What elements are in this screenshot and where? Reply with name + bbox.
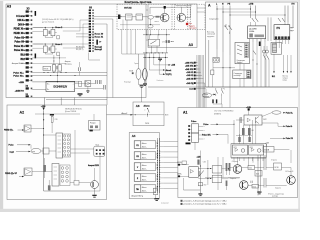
- svg-text:С2В: С2В: [55, 119, 58, 121]
- svg-text:Выход1: Выход1: [95, 46, 102, 48]
- svg-text:установить ,,Л,,О экспл для пе: установить ,,Л,,О экспл для перевода на …: [184, 204, 227, 206]
- svg-text:Б2 Колес В: Б2 Колес В: [286, 171, 294, 173]
- svg-text:Home X0: Home X0: [95, 34, 104, 36]
- svg-text:провода: провода: [203, 96, 209, 98]
- svg-text:Alarm1: Alarm1: [166, 69, 172, 72]
- svg-text:ОК2: ОК2: [204, 185, 207, 187]
- svg-text:под рельс: под рельс: [207, 36, 215, 38]
- svg-text:Закрыто: Закрыто: [275, 188, 281, 190]
- svg-text:Вх+: Вх+: [47, 84, 50, 86]
- svg-text:Р1: Р1: [223, 88, 225, 90]
- svg-text:A3: A3: [7, 5, 11, 9]
- svg-text:PEND (Y)+: PEND (Y)+: [4, 130, 14, 132]
- svg-text:+24В ХЛ1: +24В ХЛ1: [185, 65, 193, 68]
- svg-text:Pulse В+: Pulse В+: [286, 113, 293, 115]
- svg-text:ОСУ ОСЬ ТУРМ ВКЛЮЧ: ОСУ ОСЬ ТУРМ ВКЛЮЧ: [214, 111, 233, 113]
- svg-text:Термо: Термо: [134, 63, 139, 65]
- svg-text:Home X1: Home X1: [95, 37, 104, 39]
- svg-text:PEND (X)+ЧР: PEND (X)+ЧР: [5, 173, 18, 175]
- svg-text:Т: Т: [145, 110, 146, 112]
- svg-text:Вал соед-: Вал соед-: [207, 32, 215, 34]
- svg-text:Pulse X0+: Pulse X0+: [13, 75, 24, 77]
- svg-text:Открыто: Открыто: [232, 161, 238, 163]
- svg-text:СЗБ: СЗБ: [203, 162, 206, 164]
- svg-text:прекращ: прекращ: [65, 63, 72, 65]
- svg-text:А3: А3: [189, 43, 193, 47]
- svg-text:под: под: [32, 151, 35, 153]
- svg-text:ПЧ: ПЧ: [277, 27, 281, 30]
- svg-text:BL1: BL1: [272, 76, 275, 78]
- svg-text:A4: A4: [132, 134, 136, 138]
- svg-text:охлажден: охлажден: [189, 28, 197, 30]
- svg-text:РЕЛЕ: РЕЛЕ: [145, 123, 149, 125]
- svg-text:ОС2: ОС2: [263, 119, 267, 121]
- svg-text:A2: A2: [20, 111, 25, 115]
- svg-text:Pulse В-: Pulse В-: [286, 126, 293, 128]
- svg-text:СГЗ: СГЗ: [162, 42, 165, 44]
- svg-text:Закрыто: Закрыто: [230, 178, 236, 180]
- svg-text:К2.4: К2.4: [256, 174, 259, 176]
- svg-text:Резерв: Резерв: [90, 123, 96, 125]
- svg-text:DIR В-: DIR В-: [177, 174, 182, 176]
- svg-text:ДС24НВ: ДС24НВ: [249, 28, 257, 30]
- svg-text:Выход2: Выход2: [95, 49, 102, 51]
- svg-text:установить ,,Л,,М экспл для пе: установить ,,Л,,М экспл для перевода на …: [184, 200, 227, 202]
- svg-text:К2.2: К2.2: [253, 186, 256, 188]
- svg-text:Аварии К1К2 д: Аварии К1К2 д: [132, 195, 144, 198]
- svg-text:A6: A6: [136, 104, 140, 108]
- svg-text:+24В ХЛ2: +24В ХЛ2: [185, 68, 193, 71]
- svg-text:+24В Х2: +24В Х2: [186, 74, 193, 77]
- svg-text:галад сх: галад сх: [283, 77, 289, 79]
- svg-text:датчик Умвол1: датчик Умвол1: [42, 22, 54, 24]
- svg-text:+12В: +12В: [19, 82, 25, 84]
- svg-text:Соединузел: Соединузел: [234, 73, 242, 75]
- svg-text:DC24HV12V: DC24HV12V: [53, 86, 67, 89]
- svg-text:600Вт: 600Вт: [249, 31, 254, 33]
- svg-text:Х2 (РУ): Х2 (РУ): [166, 74, 172, 76]
- svg-text:Pulse: Pulse: [203, 124, 208, 126]
- svg-text:ОС10: ОС10: [274, 167, 278, 169]
- svg-text:Открыто: Открыто: [271, 160, 277, 162]
- svg-text:Й1 (Й1.1): Й1 (Й1.1): [76, 48, 84, 51]
- svg-text:(Х1-Х0) Funke 4В DC 13Q4-4ВВ (: (Х1-Х0) Funke 4В DC 13Q4-4ВВ (ВСт): [42, 19, 74, 21]
- svg-text:Обрыв: Обрыв: [203, 94, 208, 96]
- svg-text:+24В НТЦ: +24В НТЦ: [185, 61, 194, 64]
- svg-text:+24В Х1: +24В Х1: [186, 71, 193, 74]
- svg-text:ОС10М: ОС10М: [264, 150, 270, 152]
- svg-text:(ПВВФЛ): (ПВВФЛ): [214, 112, 221, 115]
- svg-text:вывод черт: вывод черт: [161, 202, 169, 204]
- svg-text:развода: развода: [272, 196, 278, 198]
- svg-text:+12В: +12В: [265, 142, 269, 144]
- svg-text:МОТ-ВШ: МОТ-ВШ: [124, 8, 132, 10]
- svg-text:Аварии 01002: Аварии 01002: [12, 62, 24, 65]
- svg-text:DIR В+: DIR В+: [177, 162, 182, 164]
- svg-text:Соединузел: Соединузел: [209, 19, 218, 21]
- svg-text:Alarm: Alarm: [144, 105, 150, 108]
- svg-text:БЛ-8: БЛ-8: [129, 71, 133, 73]
- svg-text:Контроль протока: Контроль протока: [125, 0, 152, 4]
- svg-text:+24В ХВ: +24В ХВ: [186, 77, 194, 80]
- svg-text:Pulse: Pulse: [191, 121, 197, 123]
- svg-text:Соединузел: Соединузел: [237, 60, 245, 62]
- svg-text:+27В: +27В: [249, 4, 254, 6]
- svg-text:Pulse X1+: Pulse X1+: [13, 72, 24, 74]
- svg-text:Вал пер: Вал пер: [283, 75, 288, 77]
- svg-text:ПУСК: ПУСК: [44, 68, 49, 70]
- svg-text:Своболна: Своболна: [157, 80, 164, 82]
- svg-text:вывод: вывод: [283, 80, 287, 82]
- svg-text:Дбльш ТВ810В: Дбльш ТВ810В: [65, 111, 76, 113]
- svg-text:ИСП: ИСП: [165, 115, 168, 117]
- svg-text:Pulse: Pulse: [9, 145, 14, 147]
- svg-text:reset: reset: [189, 88, 194, 91]
- svg-text:+: +: [73, 84, 74, 86]
- svg-text:Pulse ВЛ-: Pulse ВЛ-: [202, 134, 211, 136]
- svg-text:ПН: ПН: [136, 189, 139, 191]
- svg-text:Термодатчик(ротор): Термодатчик(ротор): [175, 5, 192, 7]
- svg-text:Перекидн: Перекидн: [124, 82, 131, 84]
- svg-text:Аварии К1КЗ: Аварии К1КЗ: [88, 164, 99, 167]
- svg-text:A1: A1: [183, 110, 187, 114]
- svg-text:А: А: [208, 3, 211, 7]
- svg-text:+24В НО: +24В НО: [15, 90, 24, 93]
- svg-text:оттна: оттна: [155, 21, 159, 23]
- svg-text:К Колес - модулятора: К Колес - модулятора: [268, 193, 284, 195]
- svg-text:КЗ.1: КЗ.1: [249, 168, 252, 170]
- svg-text:Pulse ХЗ: Pulse ХЗ: [286, 138, 293, 140]
- svg-text:РК: РК: [154, 192, 156, 194]
- svg-text:+24В РД: +24В РД: [186, 82, 194, 85]
